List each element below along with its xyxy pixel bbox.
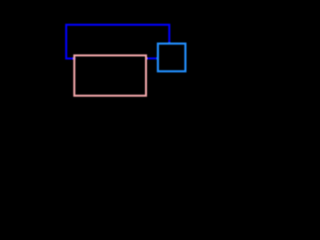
node B: bright blue square box bbox=[158, 44, 186, 72]
node A: pink rectangle box bbox=[74, 55, 146, 95]
wire: blue direct connector pink box right edge to blue box left edge bbox=[146, 57, 158, 59]
wire: blue routed connector from pink box left edge up and over to blue box top bbox=[66, 25, 169, 59]
